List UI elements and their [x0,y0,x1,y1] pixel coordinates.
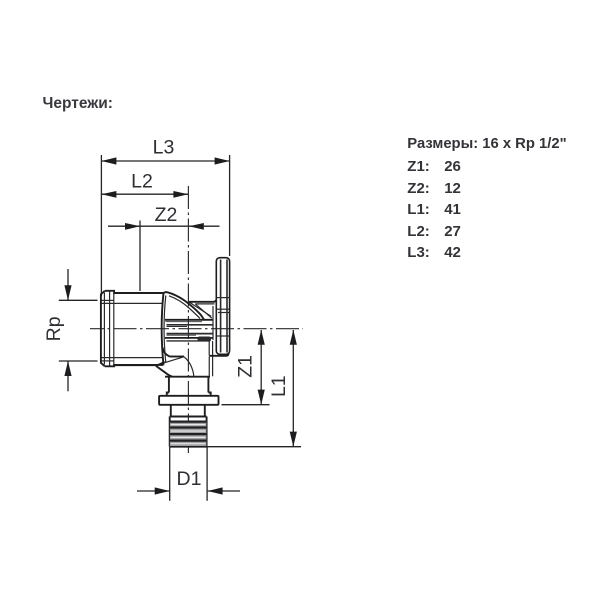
svg-text:Z2: Z2 [155,204,178,226]
svg-text:D1: D1 [177,468,202,490]
svg-text:L3: L3 [153,136,175,158]
svg-text:L2: L2 [131,170,153,192]
svg-text:Z1: Z1 [235,355,257,378]
svg-text:L1: L1 [268,375,290,397]
svg-text:Rp: Rp [43,316,65,341]
